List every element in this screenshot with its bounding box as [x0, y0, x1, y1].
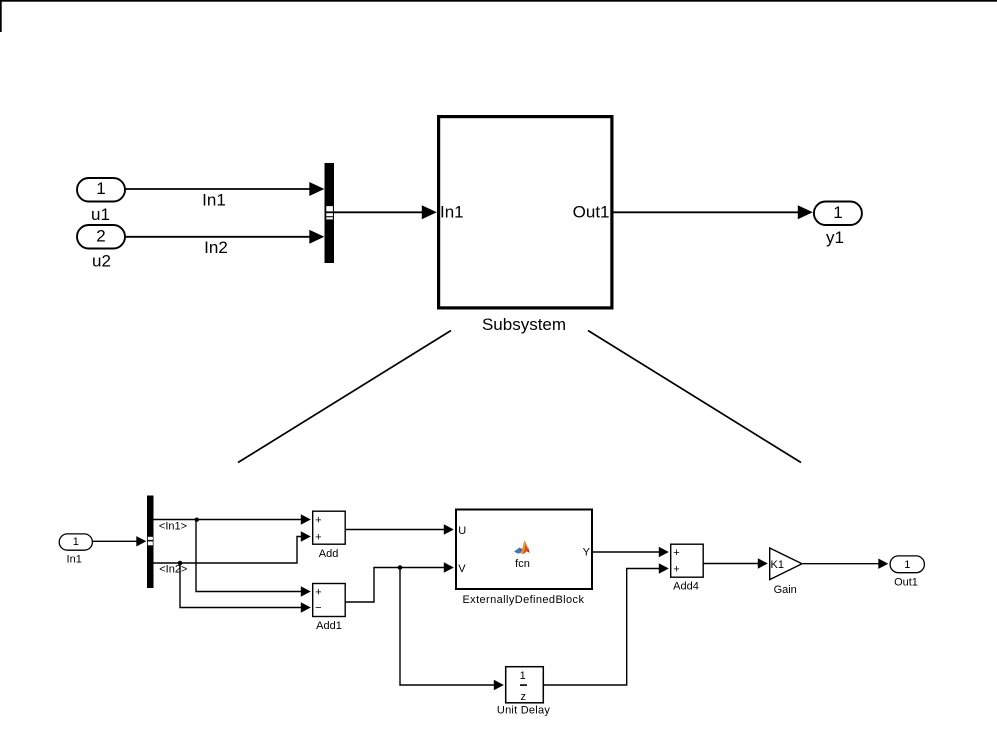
gain Gain — [770, 548, 802, 580]
junction on <In2> wire — [178, 561, 183, 566]
svg-text:V: V — [458, 563, 466, 575]
svg-text:+: + — [315, 587, 321, 599]
window frame top edge — [0, 0, 997, 2]
wire mux to subsystem — [334, 211, 434, 213]
svg-text:<In1>: <In1> — [159, 521, 187, 533]
svg-text:u2: u2 — [92, 252, 111, 271]
svg-text:Subsystem: Subsystem — [482, 315, 566, 334]
svg-text:Add4: Add4 — [673, 581, 699, 593]
subsystem Subsystem — [439, 117, 612, 308]
svg-text:In1: In1 — [67, 554, 82, 566]
svg-text:Gain: Gain — [774, 584, 797, 596]
matlab logo — [514, 540, 530, 554]
svg-text:y1: y1 — [826, 228, 844, 247]
svg-text:z: z — [521, 691, 527, 703]
mux — [325, 163, 335, 263]
svg-text:K1: K1 — [771, 559, 784, 571]
svg-text:+: + — [315, 532, 321, 544]
wire junction down to Unit Delay — [400, 568, 501, 686]
wire In2 (u2 to mux) — [125, 236, 321, 238]
wire Unit Delay to Add4 in2 — [544, 569, 666, 686]
svg-text:2: 2 — [96, 226, 105, 245]
junction on V wire — [398, 565, 403, 570]
svg-text:1: 1 — [904, 559, 910, 571]
wire Y to Add4 in1 — [593, 551, 666, 553]
inport In1 — [59, 534, 92, 550]
svg-text:+: + — [673, 547, 679, 559]
svg-text:Out1: Out1 — [573, 203, 610, 222]
svg-text:1: 1 — [833, 203, 842, 222]
subsystem ExternallyDefinedBlock — [456, 510, 592, 590]
svg-text:In1: In1 — [440, 203, 464, 222]
wire In1 (u1 to mux) — [125, 188, 321, 190]
sum block Add1 — [313, 584, 346, 617]
outport Out1 — [890, 556, 924, 573]
svg-text:u1: u1 — [91, 205, 110, 224]
junction on <In1> wire — [195, 518, 199, 522]
wire Add1 to V input — [346, 568, 451, 603]
wire Gain to Out1 — [803, 563, 885, 565]
expansion line left — [238, 331, 451, 463]
wire Add4 to Gain — [704, 563, 766, 565]
wire subsystem to y1 — [614, 211, 811, 213]
wire In1 to demux — [93, 540, 144, 542]
svg-text:Y: Y — [583, 547, 591, 559]
wire demux out1 to Add in1 — [154, 519, 309, 521]
svg-text:In1: In1 — [202, 191, 226, 210]
wire demux out2 to Add in2 — [154, 537, 309, 564]
sum block Add — [313, 511, 346, 544]
svg-text:Out1: Out1 — [894, 577, 918, 589]
svg-text:1: 1 — [73, 536, 79, 548]
svg-text:Add1: Add1 — [316, 620, 342, 632]
unit delay Unit Delay — [506, 667, 544, 703]
svg-text:In2: In2 — [204, 238, 228, 257]
wire junction down to Add1 in2 — [180, 563, 309, 608]
svg-text:+: + — [315, 515, 321, 527]
svg-text:+: + — [673, 564, 679, 576]
svg-text:1: 1 — [96, 179, 105, 198]
wire Add to U input — [346, 529, 451, 531]
inport u1 — [77, 178, 125, 202]
svg-text:U: U — [458, 525, 466, 537]
svg-text:−: − — [315, 602, 321, 614]
outport y1 — [814, 202, 862, 226]
inport u2 — [77, 225, 125, 249]
svg-text:<In2>: <In2> — [159, 564, 187, 576]
svg-text:fcn: fcn — [515, 558, 530, 570]
svg-text:Add: Add — [319, 548, 339, 560]
expansion line right — [588, 331, 801, 463]
svg-text:Unit Delay: Unit Delay — [497, 705, 550, 717]
window frame left edge — [0, 0, 2, 32]
svg-text:ExternallyDefinedBlock: ExternallyDefinedBlock — [462, 594, 584, 606]
wire junction down to Add1 in1 — [196, 520, 309, 592]
sum block Add4 — [671, 544, 704, 577]
demux — [147, 496, 154, 589]
svg-text:1: 1 — [520, 670, 526, 682]
